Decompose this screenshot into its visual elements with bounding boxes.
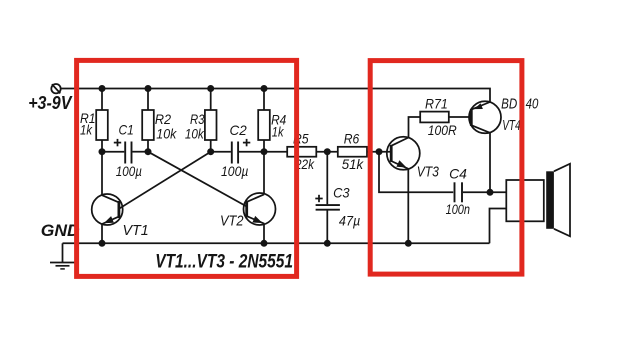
svg-text:R71: R71 xyxy=(425,96,448,112)
node top R1 xyxy=(99,85,106,92)
node mid R1/C1 xyxy=(99,148,106,155)
svg-text:BD: BD xyxy=(501,96,517,112)
wire R1 column top xyxy=(101,89,103,111)
svg-text:47µ: 47µ xyxy=(339,212,360,228)
svg-text:GND: GND xyxy=(41,221,80,240)
wire node R4 to R5 xyxy=(264,151,287,153)
svg-text:C4: C4 xyxy=(449,166,467,182)
wire VT4 collector to speaker top xyxy=(490,191,506,193)
transistor Q VT3 xyxy=(387,117,420,243)
svg-text:100R: 100R xyxy=(428,122,457,138)
transistor Q VT1 xyxy=(92,152,123,244)
node mid R2/C1 xyxy=(145,148,152,155)
wire R1 to node xyxy=(101,140,103,152)
capacitor C1 xyxy=(102,139,148,164)
ground xyxy=(50,243,75,269)
wire cross-coupling R2 node to VT2 base xyxy=(148,152,247,207)
node VT3 emitter xyxy=(405,240,412,247)
svg-text:100µ: 100µ xyxy=(116,163,142,179)
node top R4 xyxy=(261,85,268,92)
node mid R4/C2 xyxy=(261,148,268,155)
svg-text:1k: 1k xyxy=(272,124,284,140)
wire R6 to VT3 base xyxy=(367,151,391,153)
transistor Q VT4 xyxy=(469,101,501,192)
node C3 bottom xyxy=(324,240,331,247)
svg-text:10k: 10k xyxy=(185,125,205,141)
resistor R4 xyxy=(258,110,270,140)
wire R2 to node xyxy=(147,140,149,152)
resistor R2 xyxy=(142,110,154,140)
capacitor C3 xyxy=(315,152,340,244)
red highlight box right (amplifier) xyxy=(370,61,522,275)
wire R4 column top xyxy=(263,89,265,111)
resistor R71 xyxy=(420,112,449,123)
capacitor C4 xyxy=(455,182,491,202)
wire R3 to node xyxy=(210,140,212,152)
wire feedback tap to C4 xyxy=(379,152,453,193)
red highlight box left (multivibrator) xyxy=(77,60,297,276)
svg-text:VT1...VT3 - 2N5551: VT1...VT3 - 2N5551 xyxy=(155,250,293,272)
svg-text:VT4: VT4 xyxy=(502,118,520,134)
svg-text:C1: C1 xyxy=(119,121,134,137)
svg-text:10k: 10k xyxy=(156,125,177,141)
wire top rail xyxy=(61,89,490,103)
svg-text:C2: C2 xyxy=(230,122,247,138)
wire cross-coupling R3 node to VT1 base xyxy=(119,152,211,209)
node top R3 xyxy=(207,85,214,92)
svg-text:1k: 1k xyxy=(80,121,93,137)
resistor R5 xyxy=(287,147,316,157)
node VT2 emitter xyxy=(261,240,268,247)
wire R5 to R6 xyxy=(316,151,338,153)
node mid R3/C2 xyxy=(207,148,214,155)
svg-text:51k: 51k xyxy=(342,156,364,172)
node VT1 emitter xyxy=(99,240,106,247)
svg-text:R6: R6 xyxy=(344,130,360,146)
svg-text:C3: C3 xyxy=(333,185,350,201)
svg-text:VT2: VT2 xyxy=(220,214,244,230)
terminal +3-9V xyxy=(51,84,60,93)
capacitor C2 xyxy=(211,139,264,164)
svg-text:100µ: 100µ xyxy=(221,163,248,179)
speaker LS xyxy=(506,164,570,237)
wire R4 to node xyxy=(263,140,265,152)
wire bottom rail xyxy=(63,242,490,244)
node feedback tap xyxy=(376,148,383,155)
wire R71 to VT4 base xyxy=(449,116,472,118)
resistor R6 xyxy=(338,147,367,157)
resistor R1 xyxy=(96,110,108,140)
svg-text:VT3: VT3 xyxy=(417,164,439,180)
svg-text:VT1: VT1 xyxy=(123,223,149,239)
node C3 top xyxy=(324,148,331,155)
node top R2 xyxy=(145,85,152,92)
wire R2 column top xyxy=(147,89,149,111)
svg-text:+3-9V: +3-9V xyxy=(28,93,73,113)
svg-text:100n: 100n xyxy=(446,201,471,217)
wire R3 column top xyxy=(210,89,212,111)
wire speaker bottom return xyxy=(490,209,507,244)
transistor Q VT2 xyxy=(244,152,276,244)
node VT4 collector/C4 xyxy=(487,189,494,196)
svg-text:40: 40 xyxy=(526,96,539,112)
resistor R3 xyxy=(205,110,217,140)
